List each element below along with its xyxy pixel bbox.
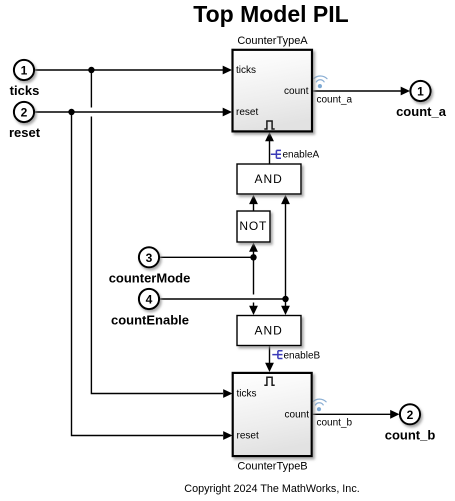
svg-text:2: 2 xyxy=(21,106,28,120)
outport 1 count_a xyxy=(410,81,430,101)
svg-text:reset: reset xyxy=(9,125,41,140)
wire countEnable up to AND A xyxy=(285,204,287,300)
svg-text:count_a: count_a xyxy=(317,95,353,106)
svg-text:count_b: count_b xyxy=(317,418,353,429)
wire enableA: AND A output up to CounterTypeA trigger xyxy=(269,141,271,164)
arrow into AND B left xyxy=(249,306,258,315)
inport 4 xyxy=(139,289,159,309)
wire ticks: inport1 to CounterTypeA xyxy=(35,69,224,71)
arrow into outport 1 xyxy=(401,87,410,96)
node junction reset xyxy=(68,109,74,115)
arrow into CounterTypeA trigger xyxy=(265,132,274,141)
block AND A xyxy=(237,164,301,194)
node junction ticks xyxy=(88,67,94,73)
inport 2 xyxy=(14,102,34,122)
svg-text:count_b: count_b xyxy=(385,427,436,442)
arrow into CounterTypeB reset xyxy=(223,431,232,440)
svg-text:NOT: NOT xyxy=(239,219,267,233)
svg-text:enableA: enableA xyxy=(283,150,320,161)
svg-text:3: 3 xyxy=(146,251,153,265)
wifi badge B xyxy=(313,399,326,411)
svg-text:count: count xyxy=(285,409,310,420)
svg-text:Copyright 2024 The MathWorks,: Copyright 2024 The MathWorks, Inc. xyxy=(184,483,359,495)
signal tag enableA xyxy=(271,150,281,158)
node junction countEnable xyxy=(282,296,288,302)
trigger pulse symbol A xyxy=(264,121,274,129)
outport 2 count_b xyxy=(400,404,420,424)
inport 3 xyxy=(139,247,159,267)
wire countEnable down to AND B xyxy=(285,299,287,307)
block NOT xyxy=(237,211,270,242)
svg-text:1: 1 xyxy=(417,85,424,99)
wire NOT output to AND A xyxy=(253,204,255,211)
arrow into CounterTypeB ticks xyxy=(223,389,232,398)
wire ticks branch down to CounterTypeB xyxy=(90,70,92,108)
block CounterTypeB xyxy=(233,373,312,456)
wifi badge A xyxy=(314,76,327,88)
svg-text:Top Model PIL: Top Model PIL xyxy=(193,1,348,27)
block AND B xyxy=(237,316,301,346)
svg-text:enableB: enableB xyxy=(284,351,321,362)
svg-text:count: count xyxy=(284,86,309,97)
trigger pulse symbol B xyxy=(264,377,274,385)
arrow into AND A right xyxy=(281,195,290,204)
svg-text:ticks: ticks xyxy=(237,389,257,400)
svg-text:reset: reset xyxy=(236,107,258,118)
svg-text:4: 4 xyxy=(146,293,153,307)
signal tag enableB xyxy=(272,351,282,359)
svg-text:ticks: ticks xyxy=(10,83,40,98)
svg-text:CounterTypeA: CounterTypeA xyxy=(237,35,308,47)
wire enableB: AND B output down to CounterTypeB trigger xyxy=(269,346,271,364)
svg-text:countEnable: countEnable xyxy=(111,313,189,328)
node junction counterMode xyxy=(250,254,256,260)
wire count_b to outport 2 xyxy=(312,413,391,415)
wire reset: inport2 to CounterTypeA xyxy=(35,111,224,113)
svg-text:count_a: count_a xyxy=(396,104,447,119)
arrow into CounterTypeA reset xyxy=(223,108,232,117)
arrow into NOT xyxy=(249,243,258,252)
arrow into CounterTypeB trigger xyxy=(265,363,274,372)
svg-text:1: 1 xyxy=(21,64,28,78)
wire counterMode to junction xyxy=(160,256,254,258)
wire counterMode up to NOT xyxy=(253,251,255,258)
arrow into outport 2 xyxy=(390,410,399,419)
block CounterTypeA xyxy=(233,50,313,132)
wire count_a to outport 1 xyxy=(312,90,402,92)
svg-text:CounterTypeB: CounterTypeB xyxy=(237,461,307,473)
svg-text:counterMode: counterMode xyxy=(109,271,191,286)
inport 1 xyxy=(14,60,34,80)
wire counterMode down to AND B xyxy=(253,257,255,294)
arrow into CounterTypeA ticks xyxy=(223,66,232,75)
arrow into AND A left xyxy=(249,195,258,204)
svg-text:reset: reset xyxy=(237,431,259,442)
svg-text:ticks: ticks xyxy=(236,65,256,76)
svg-text:AND: AND xyxy=(255,172,283,186)
arrow into AND B right xyxy=(281,306,290,315)
wire countEnable to junction xyxy=(160,298,286,300)
svg-text:AND: AND xyxy=(255,324,283,338)
svg-text:2: 2 xyxy=(407,408,414,422)
wire reset branch down to CounterTypeB xyxy=(72,112,224,436)
